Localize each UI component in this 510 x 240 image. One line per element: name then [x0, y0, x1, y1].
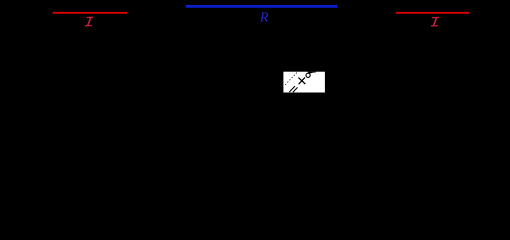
cross symbol	[298, 77, 305, 84]
hatch slash 2	[293, 87, 298, 92]
label I (left wire)	[86, 17, 93, 25]
wire segment (left, current I)	[53, 12, 127, 14]
blob (arrow tip over box edge)	[307, 72, 316, 74]
label I (right wire)	[431, 18, 438, 26]
broken-image icon box (white plate)	[283, 72, 325, 93]
wire segment (right, current I)	[396, 12, 470, 14]
hatch slash 1	[289, 86, 295, 92]
circle symbol	[306, 73, 310, 77]
resistor rod R (blue)	[186, 5, 338, 8]
svg-text:R: R	[259, 11, 269, 26]
dotted diagonal (torn edge)	[285, 71, 298, 84]
